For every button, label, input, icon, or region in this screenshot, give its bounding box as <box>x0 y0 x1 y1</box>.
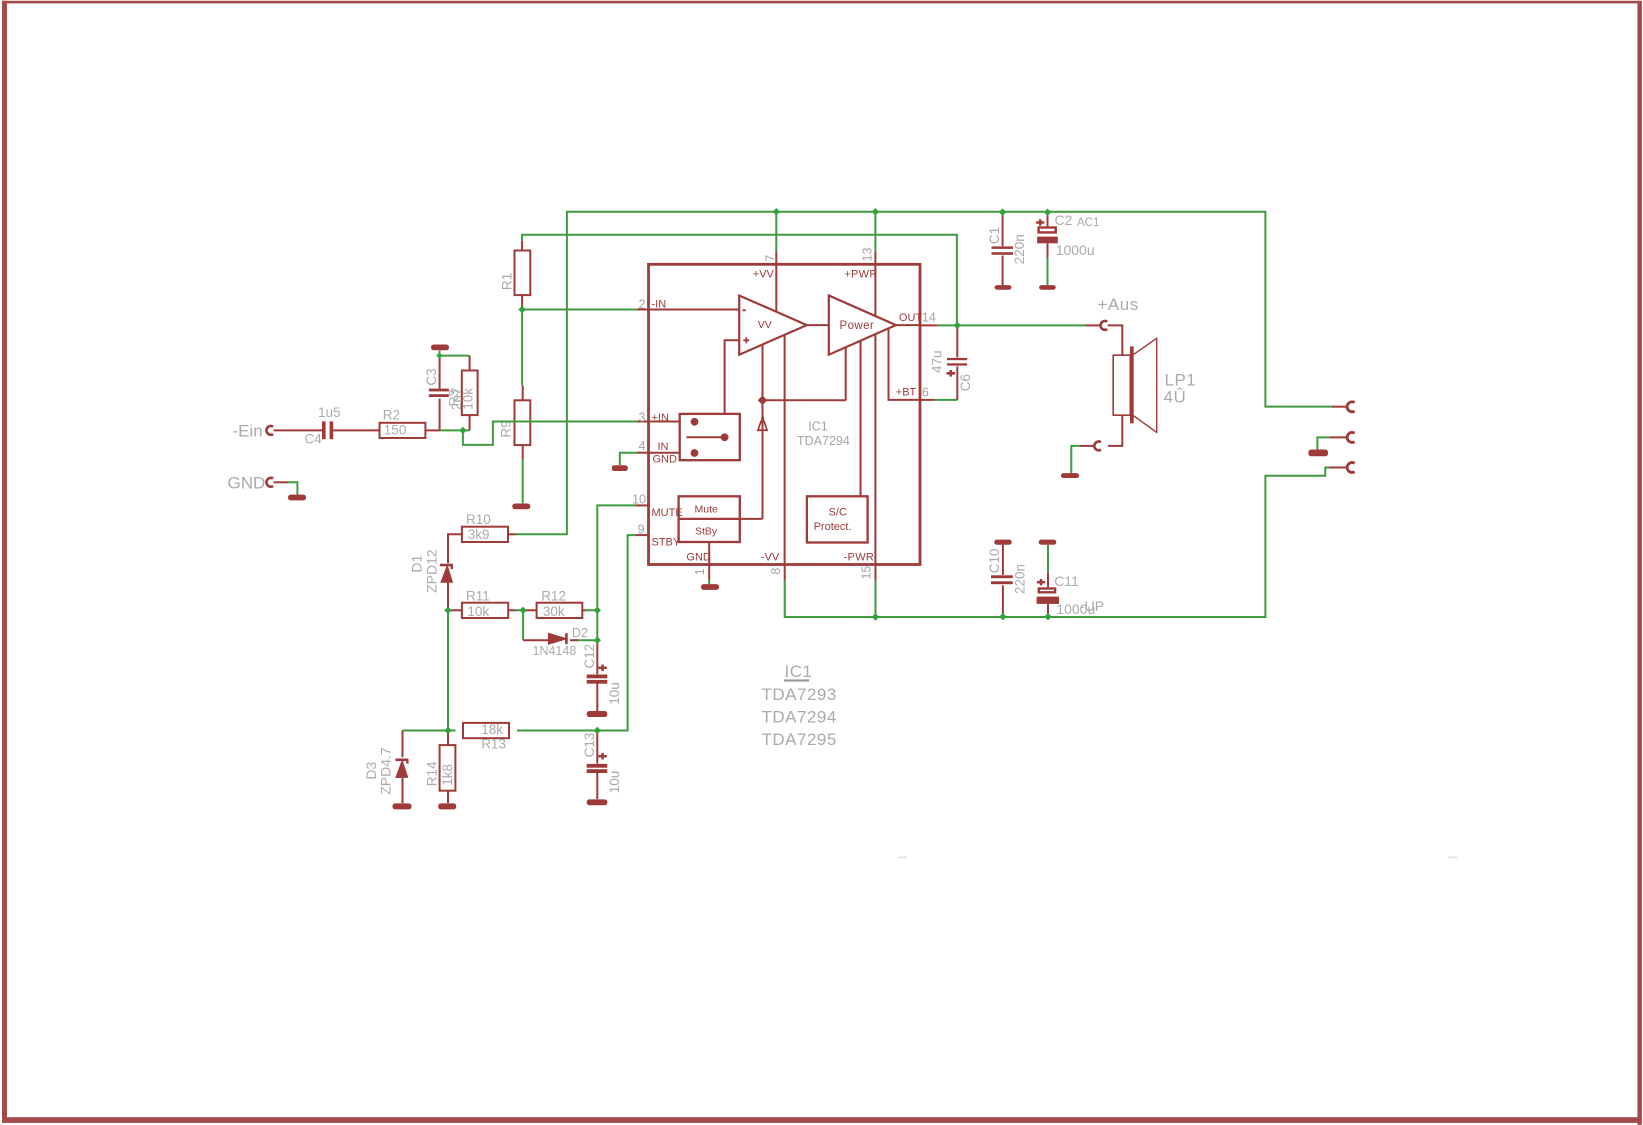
svg-text:Mute: Mute <box>695 504 719 516</box>
wire pin7 +VV internal <box>775 252 777 312</box>
resistor R1 <box>515 251 531 296</box>
node junction D2 C12 <box>594 637 601 644</box>
svg-text:R14: R14 <box>425 761 440 786</box>
label TDA7294 inner <box>797 434 850 448</box>
capacitor C4 <box>322 421 333 439</box>
pin label GND pin1 <box>686 552 711 564</box>
svg-text:18k: 18k <box>481 722 503 737</box>
pin number 13 <box>860 248 874 262</box>
switch lever <box>687 436 722 438</box>
svg-text:STBY: STBY <box>652 536 681 548</box>
svg-text:Power: Power <box>840 320 875 332</box>
wire GND pad to ground symbol <box>288 482 297 495</box>
label LP1 <box>1165 371 1197 390</box>
wire VV apex to power amp <box>807 324 829 326</box>
pin label GND pin4 <box>653 454 678 466</box>
label R12 <box>541 588 566 603</box>
ground C13 <box>587 799 608 805</box>
ground speaker <box>1061 473 1079 478</box>
node junction pin7 bus <box>773 208 780 215</box>
wire D2 left lead <box>523 639 549 641</box>
wire C10 top lead <box>1002 545 1004 575</box>
label R13 <box>481 736 506 751</box>
svg-text:R13: R13 <box>481 736 506 751</box>
faint mark left <box>898 857 907 859</box>
wire pin3 stub <box>637 421 649 423</box>
wire right pad 2 stub <box>1330 436 1347 438</box>
svg-text:1N4148: 1N4148 <box>533 644 577 658</box>
label C3 <box>424 368 439 385</box>
node junction C10 bus <box>999 613 1006 620</box>
wire C6 bottom lead <box>956 366 958 400</box>
wire D1 node down to R13 node <box>447 610 449 730</box>
node junction input R2/C3/R3 <box>459 427 466 434</box>
wire R13 right to C13 node and STBY run <box>517 730 628 732</box>
wire speaker bottom to pad <box>1108 415 1122 446</box>
wire OUT internal <box>896 324 920 326</box>
svg-text:R12: R12 <box>541 588 566 603</box>
wire R11-R12 node nubs <box>516 609 597 611</box>
svg-text:TDA7295: TDA7295 <box>762 730 837 749</box>
wire pin2 stub <box>637 309 649 311</box>
wire R3 top lead <box>469 356 471 371</box>
pin label +PWR <box>844 269 877 281</box>
label Mute <box>695 504 719 516</box>
label TDA7293 <box>762 685 837 704</box>
resistor R11 <box>462 603 508 618</box>
svg-text:ZPD4.7: ZPD4.7 <box>377 747 393 795</box>
svg-text:1u5: 1u5 <box>318 405 341 420</box>
pin number 6 <box>922 386 929 400</box>
node junction R11 R12 <box>519 607 526 614</box>
svg-text:VV: VV <box>758 319 772 331</box>
label GND input <box>228 474 266 493</box>
label 1u5 <box>318 405 341 420</box>
svg-text:4: 4 <box>639 439 646 453</box>
capacitor C1 <box>992 246 1014 254</box>
wire R11/R12 node down to D2 <box>522 610 524 640</box>
wire pin1 stub <box>708 565 710 581</box>
diode D3 zener <box>395 760 408 777</box>
ground D3 <box>393 803 412 809</box>
svg-text:1000u: 1000u <box>1056 242 1095 258</box>
faint mark right <box>1448 857 1457 859</box>
node junction pin13 bus <box>872 208 879 215</box>
ground C3 top <box>431 345 449 351</box>
label 10u C12 <box>607 682 622 705</box>
op-amp Power output stage U1 <box>829 296 896 355</box>
wire +IN net (input node to pin3) <box>440 422 637 445</box>
pin label MUTE <box>652 507 683 519</box>
diode D1 zener <box>440 565 453 582</box>
label 10k R3 <box>461 388 476 410</box>
wire C11 plus lead <box>1047 573 1049 588</box>
wire pin4 IN GND to ground <box>620 453 637 465</box>
wire STBY pin run <box>597 535 635 730</box>
label C6 <box>958 374 973 391</box>
speaker LP1 <box>1113 338 1157 432</box>
label ZPD4.7 <box>377 747 393 795</box>
svg-text:-IN: -IN <box>652 299 667 311</box>
wire R1 bottom stub <box>521 295 523 309</box>
pin number 2 <box>639 298 646 312</box>
svg-text:15: 15 <box>859 566 873 580</box>
wire +Aus pad lead-in <box>1086 324 1100 326</box>
wire pin15 to bottom bus <box>875 581 877 618</box>
wire -IN net (R1 bottom to pin2) <box>522 309 637 311</box>
capacitor C2 electrolytic <box>1036 219 1058 243</box>
label R10 <box>466 512 491 527</box>
node switch pin4 contact <box>691 449 699 457</box>
node switch pin3 contact <box>691 418 699 426</box>
svg-text:Protect.: Protect. <box>814 521 852 533</box>
wire R9 top lead <box>522 385 524 400</box>
svg-text:-PWR: -PWR <box>844 552 875 564</box>
svg-text:GND: GND <box>228 474 266 493</box>
svg-text:S/C: S/C <box>829 507 847 519</box>
node junction R1 bottom -IN <box>518 306 525 313</box>
label D2 <box>572 626 588 640</box>
wire R10 right stub <box>508 533 516 535</box>
svg-text:-VV: -VV <box>761 552 780 564</box>
svg-text:IC1: IC1 <box>808 419 828 433</box>
wire power amp to +BT riser <box>845 347 847 400</box>
label IC1 inner <box>808 419 828 433</box>
label C4 <box>305 432 323 447</box>
svg-text:C6: C6 <box>958 374 973 391</box>
capacitor C13 <box>587 753 608 773</box>
ground C1 <box>995 285 1012 290</box>
wire R12 left lead <box>523 609 536 611</box>
svg-text:TDA7294: TDA7294 <box>762 707 837 726</box>
wire R13 left nub <box>448 730 456 732</box>
pin label -PWR <box>844 552 875 564</box>
svg-text:+Aus: +Aus <box>1098 295 1139 314</box>
label C1 <box>987 227 1002 244</box>
svg-text:10k: 10k <box>467 604 489 619</box>
svg-text:10k: 10k <box>461 388 476 410</box>
svg-text:7: 7 <box>763 255 777 262</box>
label IC1 big <box>784 662 812 682</box>
wire R1 top feedback run to OUT node <box>522 235 957 326</box>
label R2 <box>383 408 400 423</box>
node junction C2 bus <box>1044 209 1051 216</box>
wire MUTE pin run <box>597 505 635 640</box>
capacitor C10 <box>991 575 1013 584</box>
svg-text:30k: 30k <box>543 604 565 619</box>
svg-text:C11: C11 <box>1054 573 1079 589</box>
wire pin8 stub <box>784 565 786 581</box>
label AC1 <box>1077 217 1099 229</box>
wire D2 right stub <box>570 639 578 641</box>
op-amp U-internal long +PWR/-PWR rail pin13 to pin15 <box>874 252 876 565</box>
label Protect. <box>814 521 852 533</box>
wire R14 bottom lead <box>447 791 449 803</box>
node +BT internal junction <box>758 396 768 406</box>
pin number 7 <box>763 255 777 262</box>
svg-text:IC1: IC1 <box>785 662 813 681</box>
label 47u <box>929 350 944 373</box>
wire input node to R3 nub <box>463 429 470 431</box>
wire output node to +Aus pad <box>957 324 1086 326</box>
wire C1 top lead <box>1002 212 1004 246</box>
label StBy <box>695 526 718 538</box>
label R9 <box>498 420 513 437</box>
pad -Ein <box>266 426 273 435</box>
svg-text:9: 9 <box>638 523 645 537</box>
svg-text:C10: C10 <box>987 549 1002 574</box>
wire C10 bottom lead <box>1002 585 1004 616</box>
wire R13 node left to D3 <box>403 730 449 732</box>
svg-text:14: 14 <box>922 311 936 325</box>
wire C3/R3 top ground stub <box>439 351 441 358</box>
wire R2 right stub <box>425 429 440 431</box>
capacitor C11 electrolytic <box>1037 579 1059 604</box>
svg-text:-UP: -UP <box>1080 598 1104 614</box>
svg-text:MUTE: MUTE <box>652 507 683 519</box>
pin number 3 <box>639 411 646 425</box>
svg-text:13: 13 <box>860 248 874 262</box>
wire +V bus (R10 right, up, along top, right side down to output pad) <box>516 212 1332 535</box>
node junction D1 R11 <box>444 607 451 614</box>
pin label +IN <box>652 412 669 424</box>
label VV <box>758 319 772 331</box>
label C13 <box>582 733 597 758</box>
svg-text:R9: R9 <box>498 420 513 437</box>
svg-text:C2: C2 <box>1055 212 1073 228</box>
pin label STBY <box>652 536 681 548</box>
resistor R2 <box>380 423 426 438</box>
pin number 15 <box>859 566 873 580</box>
wire C3 top node branch to R3 <box>440 355 470 357</box>
label 10k <box>467 604 489 619</box>
label D1 <box>408 555 424 573</box>
svg-text:+VV: +VV <box>753 269 775 281</box>
wire C2 bottom to ground <box>1047 258 1049 286</box>
pad supply gnd <box>1347 432 1355 442</box>
label 18k <box>481 722 503 737</box>
mute stby control box <box>679 496 740 542</box>
svg-text:220n: 220n <box>1012 234 1027 264</box>
wire D3 top lead <box>402 731 404 758</box>
ground input pad <box>288 495 306 501</box>
svg-text:10u: 10u <box>607 771 622 794</box>
label R14 <box>425 761 440 786</box>
label R11 <box>466 588 490 603</box>
svg-text:StBy: StBy <box>695 526 718 538</box>
wire speaker return to ground <box>1071 446 1080 473</box>
pin label +VV <box>753 269 775 281</box>
label 2n7 <box>449 388 464 411</box>
wire pin9 stub <box>636 534 649 536</box>
pin label -VV <box>761 552 780 564</box>
wire C6 top lead <box>956 325 958 357</box>
wire VV+ input lead <box>725 340 740 434</box>
op-amp IC1 outline box <box>649 264 921 564</box>
label Power <box>840 320 875 332</box>
wire C11 bottom lead <box>1047 604 1049 617</box>
wire R9 bottom lead <box>522 445 524 459</box>
pin number 9 <box>638 523 645 537</box>
wire R12 right stub <box>582 609 586 611</box>
label C12 <box>582 644 597 669</box>
wire pin14 stub <box>920 324 937 326</box>
wire C11 top to ground <box>1047 545 1049 573</box>
pin number 10 <box>632 493 646 507</box>
label 150 <box>384 422 407 437</box>
wire C3 bottom lead <box>439 399 441 431</box>
label S/C <box>829 507 847 519</box>
pin number 14 <box>922 311 936 325</box>
wire R11 right stub <box>508 609 516 611</box>
ground C2 <box>1039 285 1056 290</box>
label TDA7294 alt <box>762 707 837 726</box>
minus sign VV inverting input <box>743 309 746 311</box>
svg-text:R11: R11 <box>466 588 490 603</box>
ground C11 top <box>1039 540 1057 545</box>
resistor R12 <box>537 603 583 618</box>
label 220n C10 <box>1012 564 1027 594</box>
wire R3 bottom lead <box>469 415 471 430</box>
wire pin4 internal to switch <box>649 452 695 454</box>
capacitor C6 <box>947 358 968 377</box>
label C10 <box>987 549 1002 574</box>
wire C1 bottom lead <box>1002 256 1004 286</box>
svg-text:1k8: 1k8 <box>440 764 455 786</box>
label ZPD12 <box>423 549 439 593</box>
node junction R13 C13 <box>594 727 601 734</box>
label 30k <box>543 604 565 619</box>
svg-text:C12: C12 <box>582 644 597 669</box>
resistor R3 <box>462 371 478 416</box>
wire pin4 stub <box>637 452 649 454</box>
pin label OUT <box>899 312 923 324</box>
node junction C1 bus <box>999 208 1006 215</box>
capacitor C3 <box>429 389 449 397</box>
wire -IN net down to R9 <box>521 310 523 386</box>
wire OUT to +BT pin feed <box>889 328 921 400</box>
svg-text:C1: C1 <box>987 227 1002 244</box>
svg-text:220n: 220n <box>1012 564 1027 594</box>
wire pin6 stub <box>920 399 935 401</box>
node junction OUT <box>954 322 961 329</box>
svg-text:10u: 10u <box>607 682 622 705</box>
wire D3 bottom lead <box>402 778 404 803</box>
plus sign VV non-inverting input <box>743 337 749 343</box>
resistor R13 <box>463 723 509 738</box>
wire pin6 +BT to C6 bottom <box>935 399 958 401</box>
svg-text:TDA7293: TDA7293 <box>762 685 837 704</box>
wire speaker pad left stub <box>1080 445 1094 447</box>
label 4 ohm <box>1164 387 1187 406</box>
svg-text:OUT: OUT <box>899 312 923 324</box>
wire pin15 stub <box>875 565 877 581</box>
svg-text:10: 10 <box>632 493 646 507</box>
wire +BT internal horizontal <box>763 399 846 401</box>
wire pin3 internal to switch <box>649 421 695 423</box>
svg-text:1: 1 <box>693 568 707 575</box>
label C11 <box>1054 573 1079 589</box>
wire D2 to C12 node nub <box>578 639 597 641</box>
wire mute reference riser <box>762 400 764 519</box>
label 1k8 <box>440 764 455 786</box>
svg-text:C3: C3 <box>424 368 439 385</box>
svg-text:IN: IN <box>658 441 669 453</box>
wire C2 bottom lead <box>1047 243 1049 257</box>
wire pin7 stub from +V bus <box>775 212 777 252</box>
wire +IN net over R9 <box>493 421 637 423</box>
wire R9 bottom to ground <box>522 459 524 503</box>
wire C13 top lead <box>596 731 598 764</box>
svg-text:2: 2 <box>639 298 646 312</box>
wire GND pad stub <box>274 481 289 483</box>
svg-text:+IN: +IN <box>652 412 669 424</box>
op-amp VV input stage U1 <box>739 296 807 355</box>
ground R14 <box>438 803 456 809</box>
s/c protection box <box>807 496 868 542</box>
svg-text:GND: GND <box>686 552 711 564</box>
svg-text:R10: R10 <box>466 512 491 527</box>
wire -VV internal rail to pin8 <box>784 335 786 565</box>
node junction R13 R14 <box>444 727 451 734</box>
label 1000u C2 <box>1056 242 1095 258</box>
svg-text:4Û: 4Û <box>1164 387 1187 406</box>
wire pin1 internal from StBy box <box>708 542 710 565</box>
pin label -IN <box>652 299 667 311</box>
svg-text:D1: D1 <box>408 555 424 573</box>
wire R1 top stub <box>521 241 523 251</box>
wire C3 top lead <box>439 358 441 389</box>
wire pin10 stub <box>636 504 649 506</box>
svg-text:AC1: AC1 <box>1077 217 1099 229</box>
resistor R9 <box>515 400 531 445</box>
svg-text:GND: GND <box>653 454 678 466</box>
wire C12 bottom lead <box>596 684 598 712</box>
wire +Aus pad to speaker <box>1108 325 1123 355</box>
wire pin1 to ground <box>708 580 710 584</box>
wire pin2 internal to VV- <box>649 309 740 311</box>
svg-text:R2: R2 <box>383 408 400 423</box>
node junction C11 bus <box>1044 613 1051 620</box>
svg-text:8: 8 <box>769 568 783 575</box>
wire +BT internal node riser <box>762 345 764 401</box>
svg-text:-Ein: -Ein <box>233 422 263 441</box>
wire right pad 3 stub <box>1329 467 1347 469</box>
label TDA7295 <box>762 730 837 749</box>
svg-text:ZPD12: ZPD12 <box>423 549 439 593</box>
ground R9 <box>512 504 530 510</box>
diode D2 <box>549 633 567 644</box>
label 1N4148 <box>533 644 577 658</box>
node junction R12 right <box>594 607 601 614</box>
pad GND <box>266 478 273 487</box>
mute reference arrow symbol <box>757 417 768 430</box>
pad speaker return <box>1094 442 1101 451</box>
wire R11 left lead <box>448 609 462 611</box>
svg-text:C13: C13 <box>582 733 597 758</box>
wire S/C protect to power amp <box>860 341 862 496</box>
label R1 <box>499 273 514 290</box>
svg-text:TDA7294: TDA7294 <box>797 434 850 448</box>
label 10u C13 <box>607 771 622 794</box>
wire -Ein pad to C4 <box>274 429 323 431</box>
svg-text:150: 150 <box>384 422 407 437</box>
label C2 <box>1055 212 1073 228</box>
label -Ein <box>233 422 263 441</box>
pin number 4 <box>639 439 646 453</box>
wire D1 bottom lead <box>447 582 449 610</box>
pin number 1 <box>693 568 707 575</box>
